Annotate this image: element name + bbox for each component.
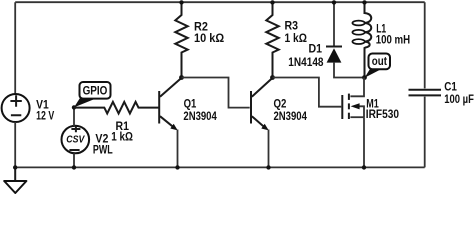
resistor R2 (175, 2, 187, 77)
svg-text:CSV: CSV (66, 135, 85, 146)
wire C1 bottom lead to bottom rail (424, 97, 426, 168)
ground (4, 167, 26, 193)
flag out (net label with pointer) (365, 54, 390, 78)
transistor Q1 (NPN: base bar, collector and emitter strokes with arrow) (159, 78, 181, 130)
wire bottom ground rail (15, 166, 425, 168)
inductor L1 (352, 2, 371, 77)
svg-text:1 kΩ: 1 kΩ (285, 31, 308, 45)
node R3 junction on top rail (270, 0, 274, 4)
svg-text:12 V: 12 V (36, 109, 54, 123)
node R2 junction on top rail (179, 0, 183, 4)
wire D1 anode to out node (334, 63, 365, 78)
capacitor C1 (409, 90, 442, 96)
node M1 source junction on bottom rail (362, 165, 366, 169)
svg-text:1N4148: 1N4148 (288, 55, 323, 69)
svg-text:100 mH: 100 mH (376, 32, 410, 46)
node ground junction on bottom rail (13, 165, 17, 169)
flag GPIO (net label with pointer) (74, 82, 111, 107)
resistor R3 (266, 2, 278, 77)
svg-text:D1: D1 (309, 42, 323, 56)
svg-text:1 kΩ: 1 kΩ (111, 129, 133, 143)
wire Q1 emitter to bottom rail (177, 130, 179, 168)
transistor M1 (NMOS: gate bar, channel segments, body arrow) (342, 78, 364, 120)
wire M1 source to bottom rail (363, 117, 365, 167)
transistor Q2 (NPN: base bar, collector and emitter strokes with arrow) (251, 78, 273, 130)
svg-text:PWL: PWL (93, 142, 113, 156)
wire V2 top lead to GPIO node (73, 107, 75, 126)
resistor R1 (74, 102, 159, 114)
wire C1 top lead from top rail (424, 2, 426, 88)
svg-text:IRF530: IRF530 (366, 107, 399, 121)
node Q2 emitter junction on bottom rail (266, 165, 270, 169)
diode D1 (cathode up to top rail) (326, 2, 342, 62)
node Q1 collector / R2 junction (179, 75, 184, 80)
voltage source V1 (2, 94, 30, 122)
node D1 junction on top rail (332, 0, 336, 4)
svg-text:100 µF: 100 µF (444, 92, 474, 106)
svg-text:10 kΩ: 10 kΩ (194, 31, 224, 45)
svg-text:GPIO: GPIO (83, 86, 108, 98)
wire Q2 emitter to bottom rail (268, 130, 270, 168)
wire Q2 collector node to M1 gate (273, 78, 342, 107)
node L1 junction on top rail (362, 0, 366, 4)
wire V2 bottom lead to bottom rail (73, 153, 75, 167)
node Q2 collector / R3 junction (270, 75, 275, 80)
wire top supply rail (15, 1, 425, 3)
node out (L1 / D1 / M1 drain junction) (362, 75, 367, 80)
wire left vertical from top rail to V1 positive terminal (14, 2, 16, 94)
svg-text:2N3904: 2N3904 (183, 109, 217, 123)
svg-text:2N3904: 2N3904 (274, 109, 308, 123)
wire V1 negative terminal to bottom rail (14, 122, 16, 167)
node V2 junction on bottom rail (72, 165, 76, 169)
svg-text:out: out (372, 56, 387, 68)
voltage source V2 (CSV/PWL source) (62, 126, 90, 154)
node Q1 emitter junction on bottom rail (175, 165, 179, 169)
wire Q1 collector node to Q2 base (182, 78, 250, 108)
node GPIO net junction (72, 105, 76, 109)
